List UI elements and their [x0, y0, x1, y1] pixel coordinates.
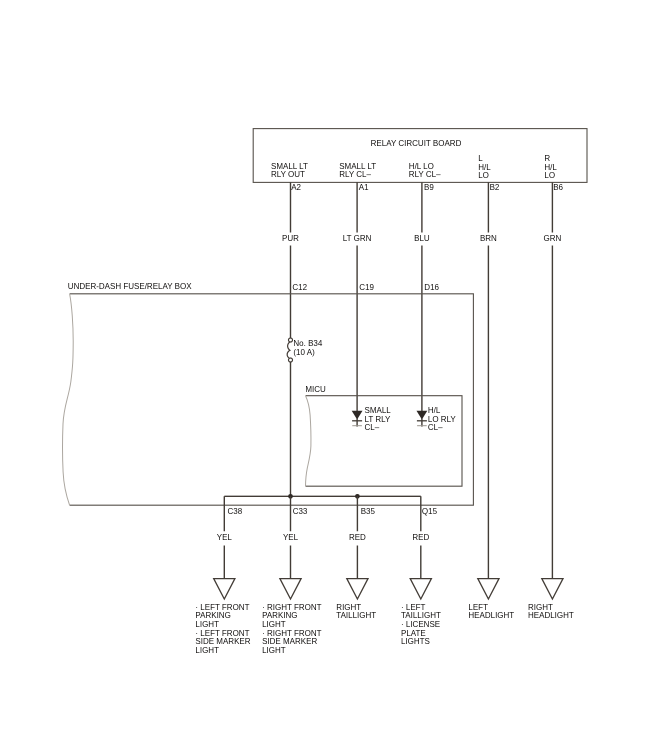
wire color label YEL C33 [283, 534, 298, 543]
MICU box torn left edge [306, 396, 311, 487]
pin label A1 [359, 184, 369, 193]
wire color label RED B35 [349, 534, 366, 543]
junction dot B35 [355, 494, 360, 499]
transistor output small lt rly cl- [352, 411, 362, 426]
wire color label BRN [480, 235, 497, 244]
arrow to left front parking light [214, 579, 235, 599]
wire color label RED Q15 [412, 534, 429, 543]
pin function label r h/l lo [544, 155, 556, 181]
arrow to right front parking light [280, 579, 301, 599]
wire B35 RED to right taillight [356, 496, 358, 578]
transistor output h/l lo rly cl- [417, 411, 427, 426]
wire C33 YEL to right front parking light [290, 496, 292, 578]
wire color label BLU [414, 235, 430, 244]
wire Q15 RED to left taillight [420, 496, 422, 578]
load label right taillight [336, 604, 376, 621]
MICU box outline [306, 396, 463, 487]
pin label B6 [553, 184, 563, 193]
arrow to left headlight [478, 579, 499, 599]
wire color label YEL C38 [217, 534, 232, 543]
load label left front parking light / side marker [195, 604, 250, 656]
fuse No. B34 10A [287, 338, 292, 362]
label small lt rly cl- [365, 407, 391, 433]
pin function label small lt rly cl- [339, 163, 376, 180]
connector pin label C38 [228, 508, 243, 517]
pin label A2 [291, 184, 301, 193]
connector pin label C33 [293, 508, 308, 517]
pin function label h/l lo rly cl- [409, 163, 441, 180]
wire A2 PUR from relay board to fuse box bus [290, 182, 292, 496]
pin label B9 [424, 184, 434, 193]
label relay circuit board [371, 140, 462, 149]
arrow to left taillight [410, 579, 431, 599]
wire A1 LT GRN from relay board to MICU [356, 182, 358, 426]
load label left headlight [468, 604, 514, 621]
under-dash fuse/relay box torn left edge [63, 294, 74, 505]
wire color label GRN [544, 235, 562, 244]
load label right front parking light / side marker [262, 604, 321, 656]
wire B6 GRN from relay board to right headlight [551, 182, 553, 578]
wire color label PUR [282, 235, 299, 244]
junction dot C33 [288, 494, 293, 499]
label under-dash fuse/relay box [68, 283, 192, 292]
under-dash fuse/relay box outline [70, 294, 474, 505]
connector pin label D16 [424, 284, 439, 293]
connector pin label C12 [292, 284, 307, 293]
connector pin label C19 [359, 284, 374, 293]
wire B9 BLU from relay board to MICU [421, 182, 423, 426]
connector pin label B35 [361, 508, 375, 517]
connector pin label Q15 [422, 508, 437, 517]
bus wire from fuse to output pins [224, 495, 420, 497]
relay circuit board box [253, 129, 587, 183]
label MICU [305, 386, 325, 395]
load label left taillight / license plate lights [401, 604, 441, 647]
fuse value label No. B34 10 A [293, 340, 322, 357]
arrow to right taillight [347, 579, 368, 599]
load label right headlight [528, 604, 574, 621]
wire C38 YEL to left front parking light [223, 496, 225, 578]
pin function label l h/l lo [478, 155, 490, 181]
pin function label small lt rly out [271, 163, 308, 180]
pin label B2 [490, 184, 500, 193]
label h/l lo rly cl- [428, 407, 456, 433]
arrow to right headlight [542, 579, 563, 599]
wire B2 BRN from relay board to left headlight [487, 182, 489, 578]
wire color label LT GRN [343, 235, 372, 244]
